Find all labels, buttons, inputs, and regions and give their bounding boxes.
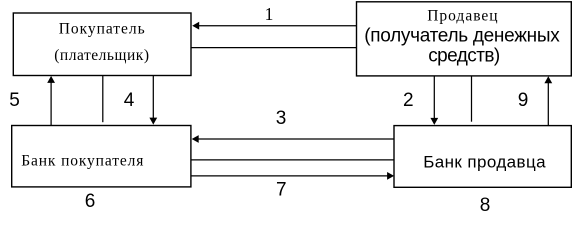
arrow 2 (Продавец down to Банк продавца) — [430, 76, 438, 125]
svg-text:1: 1 — [265, 4, 274, 24]
wire top middle (Покупатель to Продавец plain line) — [191, 47, 357, 49]
wire bottom middle (Банк покупателя to Банк продавца plain line) — [191, 159, 394, 161]
svg-text:3: 3 — [276, 108, 287, 129]
wire right middle (Продавец to Банк продавца plain line) — [471, 76, 473, 122]
svg-text:средств): средств) — [428, 46, 500, 67]
svg-text:4: 4 — [124, 90, 135, 111]
svg-text:Покупатель: Покупатель — [59, 21, 145, 38]
wire left middle (Покупатель to Банк покупателя plain line) — [102, 76, 104, 123]
arrow 7 (Банк покупателя to Банк продавца) — [191, 172, 394, 180]
svg-text:Продавец: Продавец — [427, 7, 497, 24]
svg-text:Банк покупателя: Банк покупателя — [21, 153, 143, 170]
svg-text:(плательщик): (плательщик) — [54, 47, 149, 64]
box Банк покупателя — [12, 126, 191, 187]
arrow 4 (Покупатель down to Банк покупателя) — [149, 76, 157, 125]
svg-text:Банк продавца: Банк продавца — [423, 153, 546, 172]
box Банк продавца — [394, 126, 571, 188]
svg-text:5: 5 — [9, 90, 20, 111]
svg-text:7: 7 — [276, 180, 287, 201]
box Продавец (получатель денежных средств) — [357, 2, 572, 76]
svg-text:8: 8 — [480, 195, 491, 216]
box Покупатель (плательщик) — [13, 13, 191, 76]
svg-text:6: 6 — [85, 191, 96, 212]
arrow 3 (Банк продавца to Банк покупателя) — [192, 135, 394, 143]
arrow 9 (Банк продавца up to Продавец) — [544, 76, 552, 125]
svg-text:(получатель денежных: (получатель денежных — [364, 26, 560, 47]
arrow 5 (Банк покупателя up to Покупатель) — [47, 76, 55, 126]
arrow 1 (Продавец to Покупатель) — [192, 22, 356, 30]
svg-text:2: 2 — [403, 90, 414, 111]
svg-text:9: 9 — [518, 90, 529, 111]
